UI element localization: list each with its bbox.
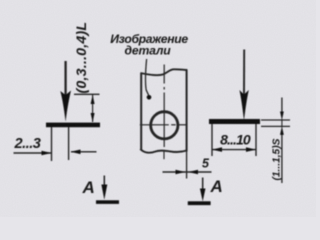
- big solder arrow (left) head: [60, 91, 71, 122]
- dimension line left piece with arrow: [14, 152, 52, 154]
- dimension line 8...10: [212, 149, 256, 151]
- big solder arrow (left) shaft: [64, 61, 66, 96]
- extension line left (right dim): [211, 124, 213, 156]
- thickness tick top (right): [261, 119, 290, 121]
- part top break line: [141, 69, 188, 75]
- big solder arrow (right) head: [239, 90, 248, 121]
- thickness tick bottom (right): [261, 125, 290, 127]
- down arrowhead: [91, 113, 95, 122]
- arrowhead meeting from right: [188, 170, 198, 174]
- vertical dimension line (left): [92, 95, 94, 122]
- extension line 2 (left dim): [68, 127, 70, 160]
- extension of part right edge down: [186, 151, 188, 178]
- view arrow A (left) shaft: [103, 176, 105, 191]
- top tick of vertical dim (left): [74, 93, 100, 95]
- hole circle: [151, 112, 178, 139]
- part left edge: [140, 73, 142, 150]
- dimension line right piece with arrow: [71, 151, 97, 153]
- centerline tail below part: [163, 151, 165, 160]
- thickness dim line lower with up arrowhead: [281, 133, 283, 183]
- thickness dim line upper with down arrowhead: [281, 98, 283, 114]
- leader from note: [146, 59, 149, 95]
- view surface bar (left): [96, 200, 119, 204]
- thickness dim line crossing ticks: [281, 119, 283, 128]
- view arrow A (left) head: [101, 185, 107, 200]
- view arrow A (right) shaft: [202, 178, 204, 195]
- left thick seam bar: [46, 123, 100, 128]
- up arrowhead: [91, 95, 95, 104]
- view surface bar (right): [188, 201, 211, 205]
- leader dot: [147, 95, 152, 100]
- part right edge: [186, 70, 188, 151]
- horizontal centerline: [140, 124, 169, 126]
- part bottom break line: [140, 149, 187, 153]
- big solder arrow (right) shaft: [243, 50, 245, 96]
- arrowhead meeting from left: [176, 170, 186, 174]
- 5-dimension line: [163, 171, 212, 173]
- extension line right (right dim): [255, 124, 257, 156]
- right thick seam bar: [209, 119, 260, 124]
- extension line 1 (left dim): [51, 127, 53, 161]
- view arrow A (right) head: [200, 189, 206, 202]
- vertical centerline: [163, 65, 165, 84]
